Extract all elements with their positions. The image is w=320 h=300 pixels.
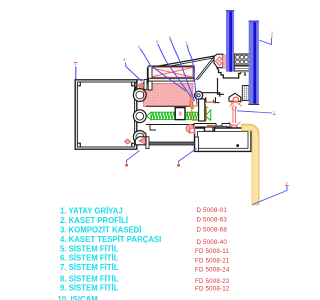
boss red diamond [216,57,224,66]
roof inner line [150,58,214,70]
svg-text:10. ISICAM: 10. ISICAM [58,295,98,300]
C channel [203,93,220,97]
svg-text:D 5008-68: D 5008-68 [197,226,228,233]
svg-text:D 5008-01: D 5008-01 [197,207,228,214]
salmon gasket [190,95,194,109]
connector bulb top [232,106,236,110]
inner corner step BR [132,143,135,146]
svg-text:FD 5008-22: FD 5008-22 [195,278,230,285]
gasket at scallop top (arrow) [138,82,146,90]
spacer bar [234,54,249,65]
spacer perforations [236,55,248,63]
bottom left label [125,164,128,167]
griyaj box outer wall [75,80,137,149]
leader label 6 [170,39,194,101]
lower pink trumpet [229,122,241,129]
bottom housing pentagon [135,137,146,145]
bottom mid label [177,164,180,167]
inner corner step TR [132,83,135,86]
rail left pink fitting [190,126,195,134]
upper dome [229,93,241,101]
glass pane 2 core [253,21,256,104]
lower channel base plate [215,126,227,128]
X-box channel [149,66,195,78]
mullion waist [199,99,205,121]
green vertical gasket [202,105,205,122]
leader label 10 [259,38,272,45]
leader label 7 [187,44,197,105]
kaset strut (steep wall) [196,57,216,81]
bottom diamond line [140,140,146,142]
svg-text:D 5008-40: D 5008-40 [197,239,228,246]
glass pane 1 (inner) [226,10,234,72]
rail orange dash right [207,125,215,126]
rail left fitting circle [190,128,195,133]
pipe ring inner [197,94,200,97]
leader label 5 [158,44,191,97]
boss lobe mid outline [133,110,146,123]
closure bar right flange [195,137,199,151]
screw thread left [151,112,175,120]
pink blob gasket [186,125,194,133]
yellow wall band [242,124,259,205]
screw boss circle bottom fill [133,131,146,144]
bottom rail inner line [198,132,249,149]
boss lobe top inner [136,91,144,99]
boss diamond cross [217,59,222,64]
glass pane 2 (outer) [249,21,259,104]
leader bottom left [127,151,140,164]
X-box red brace [150,68,193,78]
yellow band inner shade [242,125,258,204]
bottom diamond arrow [139,138,145,144]
leader wall label [253,186,288,205]
svg-text:2. KASET PROFİLİ: 2. KASET PROFİLİ [60,216,128,225]
svg-text:6: 6 [169,36,171,40]
glass pane 1 cap [226,10,234,12]
svg-text:FD 5008-24: FD 5008-24 [195,266,230,273]
closure bar left flange [146,137,149,149]
gasket arrow cross [139,83,144,88]
leader label 5b (diamond) [126,63,143,82]
upper dome circle [233,97,238,102]
leader label 4 right [237,111,272,113]
svg-text:2: 2 [138,45,140,49]
svg-text:1: 1 [273,111,275,115]
svg-text:0: 0 [271,35,273,39]
spacer lower strip [235,66,250,72]
svg-text:5. SİSTEM FİTİL: 5. SİSTEM FİTİL [60,244,119,253]
steps U [206,97,216,102]
svg-text:1. YATAY GRİYAJ: 1. YATAY GRİYAJ [60,206,123,215]
leader label 2 [140,49,186,92]
bottom pink ticks [143,132,147,136]
svg-text:FD 5008-21: FD 5008-21 [195,257,230,264]
bottom plate [194,124,230,128]
lower screw circle [231,125,237,131]
griyaj box inner wall [77,82,134,147]
glass seat and hook [217,68,245,79]
svg-text:3. KOMPOZİT KASEDİ: 3. KOMPOZİT KASEDİ [60,225,141,234]
scallop top S curve [134,81,138,91]
svg-text:8. SİSTEM FİTİL: 8. SİSTEM FİTİL [60,275,119,284]
svg-text:7. SİSTEM FİTİL: 7. SİSTEM FİTİL [60,263,119,272]
boss lobe mid inner [136,112,144,120]
closure bar [149,142,196,145]
pipe ring [195,91,203,99]
screw thread right [186,112,206,120]
svg-text:D 5008-63: D 5008-63 [197,217,228,224]
boss housing pentagon [214,54,223,67]
sloped roof line [148,56,215,84]
svg-text:5: 5 [156,40,158,44]
screw slot bottom line [146,124,194,126]
screw boss circle mid fill [133,110,146,123]
kompozit pink block [144,83,194,106]
box top stub [137,79,143,81]
svg-text:7: 7 [185,41,187,45]
svg-text:FD 5008-11: FD 5008-11 [195,248,229,255]
bottom tub [199,127,213,134]
screw tip [147,112,152,120]
inner corner step TL [78,83,81,86]
pink strip left of glass [223,55,227,68]
boss lobe bottom inner [136,133,144,141]
pink connector strut [233,107,236,123]
glass bottom line [248,103,259,105]
svg-text:5: 5 [123,58,125,62]
screw boss circle top fill [133,89,146,102]
X-box red frame [150,68,193,78]
boss lobe bottom outline [133,131,146,144]
orange seat line [197,101,214,103]
svg-text:4. KASET TESPİT PARÇASI: 4. KASET TESPİT PARÇASI [60,235,161,244]
leader bottom mid [179,149,197,164]
screw block center mark [179,112,182,116]
spacer yellow joint [235,71,250,72]
bottom pink diamond [125,139,131,144]
svg-text:FD 5008-12: FD 5008-12 [195,285,230,292]
pink petals [229,101,242,107]
glazing pocket wall [218,78,225,94]
svg-text:6. SİSTEM FİTİL: 6. SİSTEM FİTİL [60,254,119,263]
screw block [175,108,185,120]
lower pot outline [227,127,242,134]
channel bottom band [149,78,195,81]
X-box left cap [148,66,152,90]
green band left cap [150,124,156,130]
glass pane 2 cap [249,21,259,23]
pocket corner L [213,100,219,103]
setting block [242,86,249,101]
gasket scallop top pin [144,80,147,90]
bottom rail tube [195,128,252,151]
screw slot top line [146,105,193,107]
svg-text:3: 3 [286,181,288,185]
leader label 1 [75,67,77,80]
green cone [206,110,211,121]
svg-text:9. SİSTEM FİTİL: 9. SİSTEM FİTİL [60,283,119,292]
orange channel [188,106,209,120]
boss lobe top outline [133,89,146,102]
inner corner step BL [78,143,81,146]
glass pane 1 core [229,10,232,72]
rail inner tick [236,144,239,147]
